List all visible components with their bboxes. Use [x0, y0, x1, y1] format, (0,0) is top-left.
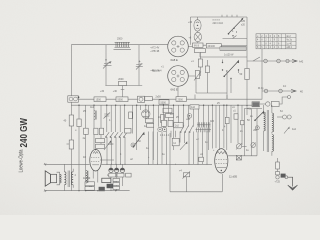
svg-text:2000: 2000: [178, 98, 184, 101]
svg-text:0u1: 0u1: [90, 106, 95, 109]
svg-text:A42: A42: [299, 61, 304, 64]
svg-text:+725: +725: [275, 181, 281, 184]
wire lower row: [200, 56, 247, 58]
capacitor on x242: [241, 120, 244, 124]
switch labels: [213, 15, 246, 33]
transformer secondary lower: [272, 135, 274, 156]
svg-text:1500: 1500: [96, 98, 102, 101]
svg-text:~47B 1B: ~47B 1B: [150, 50, 160, 53]
wire oscillator bottom: [105, 85, 142, 87]
resistor box lower: [195, 49, 206, 58]
wire tube2 bottom drop: [177, 87, 179, 100]
wave switch assembly (X): [222, 60, 239, 94]
wire riser x222: [221, 174, 223, 192]
switch diagonal contacts mid: [180, 126, 193, 133]
resistor box x180-190: [190, 105, 199, 109]
choke box on bus 2: [116, 97, 128, 102]
electrolytic cap 3: [120, 168, 124, 172]
wire collector line: [102, 163, 213, 165]
mains switch S1: [223, 18, 248, 39]
wires: stage drop lines: [79, 105, 247, 191]
svg-text:=6±: =6±: [247, 108, 252, 111]
trimmer blob: [187, 114, 192, 119]
tube V1 mixer 6A8E: [168, 36, 189, 62]
wire vertical osc section: [105, 45, 107, 86]
heater chain resistor: [275, 158, 286, 184]
wire top-left frame horizontal: [71, 44, 167, 46]
wire cathode bus: [71, 104, 255, 106]
wire detector row: [196, 92, 227, 94]
svg-text:2x50: 2x50: [156, 96, 162, 99]
trimmer capacitor C1: [103, 59, 112, 69]
svg-text:6V 8: 6V 8: [194, 44, 200, 47]
wire speaker top lead: [45, 163, 90, 165]
wire left frame vertical: [70, 45, 72, 191]
resistor box 14: [172, 138, 179, 146]
AGC arrow mid: [180, 141, 187, 150]
svg-text:4xxx 4x4: 4xxx 4x4: [152, 70, 162, 73]
aerial socket 2: [277, 59, 281, 63]
grid stopper box: [199, 157, 204, 161]
capacitor with X: [236, 155, 241, 160]
svg-text:1 4 1 4 1: 1 4 1 4 1: [160, 134, 170, 137]
tube V2 6A2E: [168, 66, 189, 92]
coupling unit circles: [138, 96, 145, 102]
capacitor box row 1: [109, 173, 116, 177]
hum pot: [179, 170, 190, 192]
socket circle x253 low: [251, 143, 256, 148]
wire bottom-left bus: [45, 190, 130, 192]
box below bus x160: [163, 108, 172, 113]
svg-text:2000: 2000: [118, 78, 124, 81]
svg-text:1u 40: 1u 40: [286, 44, 292, 46]
voltage table: [256, 34, 296, 49]
mains connector blob: [247, 102, 266, 111]
wire tube2 right: [188, 76, 196, 93]
svg-text:u05: u05: [186, 118, 191, 121]
resistor 50 (vertical): [240, 69, 250, 80]
svg-text:u40 2: u40 2: [286, 47, 292, 49]
tick speaker top: [44, 163, 47, 166]
resistor on x227: [225, 117, 229, 123]
svg-text:M 4g: M 4g: [258, 87, 264, 90]
wire aerial line: [247, 60, 292, 62]
svg-text:5000: 5000: [161, 101, 167, 104]
svg-text:4u2: 4u2: [292, 128, 297, 131]
resistor stack 3: [113, 186, 120, 189]
svg-text:+30: +30: [100, 90, 105, 93]
chassis ground arrow: [285, 176, 298, 191]
switch arm small left: [104, 140, 111, 150]
svg-text:4E: 4E: [300, 91, 303, 94]
resistor vertical x79: [77, 119, 81, 127]
resistor stack 1: [113, 178, 120, 181]
capacitor box row 3: [126, 173, 132, 177]
capacitor block dark 2: [99, 187, 105, 191]
wire right vertical x262: [261, 49, 263, 100]
wires: electrolytic drops: [111, 164, 122, 190]
voltage selector arrow: [254, 111, 264, 122]
mains transformer primary: [264, 105, 266, 151]
junction tick 1: [194, 95, 196, 100]
aerial switch contact: [253, 57, 260, 61]
svg-text:44:: 44:: [283, 85, 287, 88]
osc coil circle: [142, 110, 150, 118]
svg-text:1x120 W: 1x120 W: [224, 53, 234, 56]
scale lamp holder: [266, 96, 291, 107]
filter choke coil x86: [86, 171, 88, 184]
capacitor block dark 1: [107, 184, 114, 188]
wire heater top stub: [244, 108, 262, 110]
lamp selector arrow: [284, 126, 289, 133]
transformer core: [267, 110, 268, 152]
svg-text:5000: 5000: [118, 98, 124, 101]
output transformer T2: [64, 164, 73, 190]
coil box pair mid: [174, 123, 183, 128]
svg-text:6A2 E: 6A2 E: [171, 87, 179, 91]
electrolytic cap 2: [114, 168, 118, 172]
capacitor row x162-174: [162, 120, 174, 126]
earth arrow: [291, 89, 296, 92]
resistor vertical x197 lower with arrow: [194, 71, 201, 81]
choke box on bus 1: [94, 97, 106, 102]
resistor pair x150: [146, 119, 154, 127]
svg-text:x20: x20: [241, 24, 246, 27]
svg-text:2000: 2000: [108, 143, 114, 146]
trimmer disc pair A: [158, 127, 167, 131]
coil x94: [94, 111, 96, 120]
label tube2 pins: [150, 66, 164, 73]
svg-text:40/100: 40/100: [208, 45, 216, 48]
node +30 label: [113, 86, 124, 100]
transformer secondary upper: [272, 105, 274, 134]
resistor vertical x200 upper: [198, 52, 202, 76]
wire left riser x170: [169, 133, 171, 192]
loudspeaker LS: [45, 171, 61, 186]
wires: contacts to collector line: [107, 137, 125, 164]
aerial socket 1: [264, 59, 268, 63]
antenna coil L1 with core: [114, 38, 132, 50]
coupling cap x207: [205, 60, 209, 81]
earth socket 2: [279, 89, 283, 93]
tube V4 rectifier (oval): [215, 149, 228, 173]
svg-text:0u5: 0u5: [210, 120, 215, 123]
resistor stack 2: [113, 182, 120, 185]
svg-text:Loewe-Opta: Loewe-Opta: [18, 149, 24, 172]
resistor x86: [83, 128, 89, 140]
electrolytic cap 1: [109, 168, 113, 172]
svg-text:1u0: 1u0: [191, 106, 196, 109]
wire earth line: [262, 90, 291, 92]
pilot lamp pair: [277, 115, 291, 119]
component value labels: [75, 60, 297, 161]
junction dots bottom-left bus: [78, 190, 116, 191]
wire HT bus: [79, 98, 263, 100]
coil dot circle mid: [131, 143, 135, 147]
aerial socket 3: [286, 59, 289, 62]
wire vertical x190: [190, 17, 192, 45]
wire top bus y17: [191, 16, 248, 18]
box pair left under tube: [85, 182, 95, 190]
resistor box 6V8: [193, 43, 204, 47]
band switch contacts row 1: [105, 132, 127, 137]
barretter lamp: [188, 17, 201, 32]
junction tick 2: [226, 95, 228, 100]
wire bottom bus right: [170, 191, 222, 193]
wire x207 to bus: [206, 81, 208, 94]
resistor dark left column: [161, 115, 165, 123]
resistor narrow left x130: [129, 112, 133, 119]
svg-text:Vo 2u: Vo 2u: [286, 40, 293, 42]
resistor below switch row: [96, 139, 105, 149]
trimmer capacitor C2: [136, 61, 143, 70]
pilot lamp under tube: [88, 182, 93, 187]
resistor box 40/100: [203, 44, 247, 48]
label tube1 pins: [150, 47, 160, 54]
dropper resistor (hatched): [220, 47, 246, 57]
capacitor box row 2: [117, 173, 124, 177]
box on bus 3: [145, 97, 153, 101]
box mid x165: [166, 114, 174, 118]
capacitor block x79 lower: [67, 140, 74, 149]
junction dots collector: [106, 164, 125, 165]
capacitor pair x96-102: [94, 128, 104, 134]
svg-text:2x2: 2x2: [175, 125, 180, 128]
socket circle x257: [255, 126, 259, 130]
capacitor 2000: [118, 78, 126, 86]
junction dots on cathode bus: [78, 105, 247, 106]
svg-text:11 d05: 11 d05: [229, 175, 238, 179]
IF switch contact bank: [196, 122, 212, 132]
band switch arm (diagonal arrow): [133, 132, 145, 148]
svg-text:240 GW: 240 GW: [18, 118, 30, 148]
junction dots collector right: [148, 164, 208, 165]
antenna input unit: [68, 96, 80, 102]
box below bus 5000: [159, 100, 169, 105]
box on bus 4: [176, 97, 187, 102]
wire heater row: [228, 155, 257, 157]
tick speaker bottom: [44, 189, 47, 192]
trimmer x106: [104, 113, 111, 119]
wire tube1 left stub: [167, 44, 169, 46]
svg-text:2500: 2500: [117, 38, 123, 41]
svg-text:6A8 E: 6A8 E: [171, 58, 179, 62]
resistor R 0.4M vertical: [64, 115, 74, 126]
small box x232: [234, 114, 238, 119]
svg-text:+40: +40: [188, 21, 193, 24]
wires: heater drops: [244, 109, 257, 156]
wire vertical osc section 2: [138, 45, 140, 86]
tube V3 output (oval): [90, 149, 114, 182]
wire right vertical x247: [246, 17, 248, 104]
pickup jack: [236, 143, 247, 150]
svg-text:+30: +30: [113, 90, 118, 93]
earth socket 1: [264, 89, 268, 93]
resistor under tube: [102, 178, 118, 183]
wire x227 vertical: [226, 70, 228, 99]
wires: IF drops to collector: [149, 131, 208, 165]
aerial arrow: [292, 59, 297, 62]
svg-text:4o 2: 4o 2: [286, 36, 291, 38]
svg-text:220 4 110: 220 4 110: [213, 22, 224, 25]
svg-text:u50: u50: [253, 129, 258, 132]
switch section box: [125, 128, 131, 133]
rectifier element: [189, 32, 202, 43]
wire tube1 to grid column: [188, 46, 196, 48]
